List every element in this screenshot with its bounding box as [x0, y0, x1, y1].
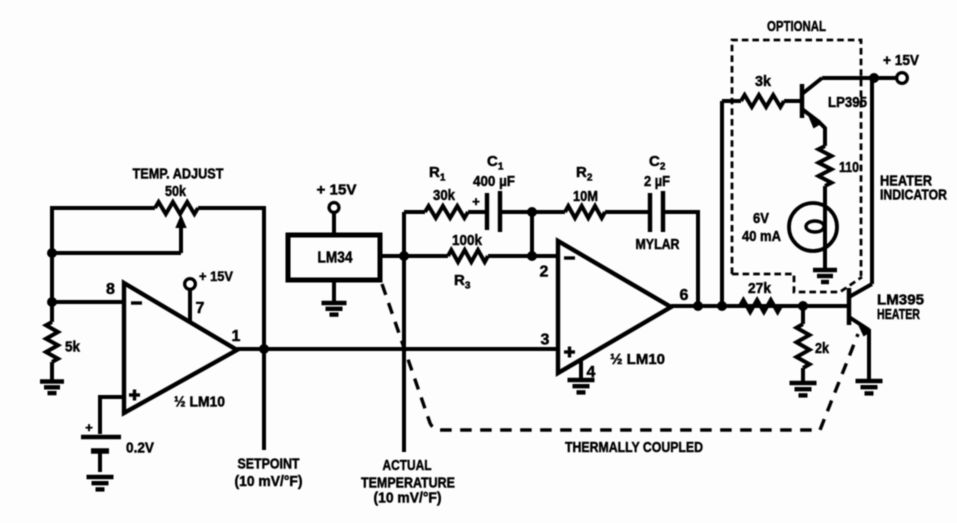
- label 6V: [753, 210, 769, 227]
- ground below 2k: [790, 383, 817, 395]
- node junction wiper/left rail: [47, 248, 57, 258]
- resistor 5k: [46, 302, 58, 380]
- wire LM34 node up to R1 row: [404, 212, 425, 258]
- lamp 6V 40mA: [789, 203, 837, 268]
- pin 1 label: [232, 328, 241, 345]
- node +15V rail junction: [869, 73, 879, 83]
- thermal coupling dashed line: [382, 284, 858, 430]
- label +15V (indicator): [883, 52, 919, 69]
- wire heater indicator rail: [870, 78, 874, 284]
- label 5k: [65, 339, 81, 356]
- resistor 2k: [797, 306, 810, 382]
- svg-text:0.2V: 0.2V: [126, 439, 154, 456]
- ground below LM34: [322, 280, 347, 315]
- label R3: [454, 272, 471, 292]
- node junction R1C1/R2 row: [527, 207, 537, 217]
- capacitor C1 400uF: [472, 191, 532, 232]
- resistor R2 10M: [565, 206, 649, 218]
- svg-text:110: 110: [839, 159, 859, 176]
- svg-text:3: 3: [541, 332, 550, 349]
- power +15V terminal (indicator): [876, 73, 907, 84]
- power +15V terminal (LM34): [329, 203, 339, 235]
- svg-text:½ LM10: ½ LM10: [610, 351, 665, 368]
- wire feedback top rail: [52, 206, 155, 210]
- svg-text:+ 15V: + 15V: [199, 268, 234, 284]
- op-amp U1 inverting input symbol: [131, 301, 142, 304]
- label C1: [487, 153, 504, 173]
- net SETPOINT probe wire: [262, 349, 266, 450]
- label 10M: [573, 188, 598, 205]
- resistor 3k: [741, 95, 802, 107]
- pin 8 label: [106, 281, 115, 298]
- svg-text:3k: 3k: [755, 73, 772, 90]
- svg-text:SETPOINT: SETPOINT: [238, 456, 300, 473]
- label +15V (U1): [199, 268, 234, 284]
- ground below lamp: [813, 270, 837, 282]
- svg-text:2k: 2k: [815, 340, 830, 357]
- svg-text:HEATER: HEATER: [877, 306, 920, 323]
- pin 7 label: [196, 300, 205, 317]
- resistor R3 100k: [448, 250, 532, 262]
- svg-text:+: +: [85, 420, 93, 435]
- svg-text:TEMP. ADJUST: TEMP. ADJUST: [133, 166, 224, 183]
- label THERMALLY COUPLED: [565, 439, 703, 456]
- label TEMP. ADJUST: [133, 166, 224, 183]
- svg-text:30k: 30k: [433, 187, 456, 204]
- node LM34 output junction: [399, 251, 409, 261]
- label 400 uF: [473, 174, 515, 190]
- label 50k (potentiometer value): [165, 183, 187, 200]
- ground below battery: [87, 477, 114, 489]
- svg-text:27k: 27k: [748, 280, 772, 297]
- svg-text:OPTIONAL: OPTIONAL: [767, 18, 826, 35]
- svg-text:ACTUAL: ACTUAL: [383, 457, 432, 474]
- wire junction to R2: [532, 210, 565, 214]
- wire U2 pin 4 to ground: [579, 360, 583, 379]
- wire C2 down to output node: [696, 210, 700, 306]
- ground U2 pin 4: [568, 380, 595, 392]
- wire wiper to left rail: [52, 251, 181, 255]
- label MYLAR: [636, 236, 680, 253]
- op-amp U2 non-inverting input symbol: [564, 347, 575, 358]
- wire base LM395: [803, 304, 849, 308]
- label LM34: [318, 250, 353, 267]
- sensor LM34 box: [288, 235, 380, 280]
- label R2: [576, 164, 593, 184]
- transistor Q1 LP395: [802, 78, 825, 146]
- svg-text:5k: 5k: [65, 339, 81, 356]
- battery B1 0.2V: [81, 420, 121, 472]
- svg-text:(10 mV/°F): (10 mV/°F): [374, 490, 442, 507]
- svg-text:+ 15V: + 15V: [317, 182, 357, 199]
- svg-text:+: +: [472, 194, 480, 209]
- label ACTUAL: [383, 457, 432, 474]
- label 1/2 LM10 (U1): [174, 394, 225, 411]
- svg-text:2 µF: 2 µF: [644, 174, 670, 190]
- label 3k: [755, 73, 772, 90]
- svg-text:40 mA: 40 mA: [742, 228, 781, 245]
- wire U2 output row: [671, 304, 847, 308]
- label HEATER (LM395): [877, 306, 920, 323]
- svg-text:LP395: LP395: [828, 94, 867, 111]
- op-amp U1 non-inverting input symbol: [129, 390, 140, 401]
- optional dashed box: [732, 40, 862, 292]
- label TEMPERATURE: [361, 475, 455, 492]
- label R1: [429, 164, 446, 184]
- wire 3k branch vertical: [722, 101, 741, 306]
- wire LM34 node to R3: [404, 254, 448, 258]
- transistor Q2 LM395: [849, 284, 872, 380]
- pin 4 label: [587, 364, 596, 381]
- svg-text:6: 6: [680, 287, 689, 304]
- op-amp U2 half LM10: [558, 241, 671, 373]
- node junction R3/pin2: [527, 251, 537, 261]
- svg-text:MYLAR: MYLAR: [636, 236, 680, 253]
- resistor 27k: [740, 300, 781, 312]
- label 2 uF: [644, 174, 670, 190]
- net ACTUAL TEMPERATURE probe wire: [402, 256, 406, 452]
- label OPTIONAL: [767, 18, 826, 35]
- label 1/2 LM10 (U2): [610, 351, 665, 368]
- pin 6 label: [680, 287, 689, 304]
- wire U1 output to U2 pin 3: [237, 347, 558, 351]
- label (10 mV/degF) setpoint: [235, 473, 303, 490]
- wire left rail vertical: [50, 206, 54, 304]
- label LP395: [828, 94, 867, 111]
- wire pot right end to output node: [198, 206, 264, 349]
- label 30k: [433, 187, 456, 204]
- label LM395: [877, 292, 924, 309]
- label +15V (LM34): [317, 182, 357, 199]
- label 40 mA: [742, 228, 781, 245]
- svg-text:1: 1: [232, 328, 241, 345]
- label 27k: [748, 280, 772, 297]
- ground below 5k: [40, 382, 64, 394]
- wire LP395 collector to +15V rail: [822, 76, 874, 80]
- wire junction down to pin2 row: [530, 212, 534, 256]
- label 110: [839, 159, 859, 176]
- node output/C2 junction: [693, 301, 703, 311]
- label (10 mV/degF) actual: [374, 490, 442, 507]
- svg-text:(10 mV/°F): (10 mV/°F): [235, 473, 303, 490]
- label 0.2V: [126, 439, 154, 456]
- svg-text:LM34: LM34: [318, 250, 353, 267]
- svg-text:100k: 100k: [452, 232, 483, 249]
- wire U1 + input to battery: [100, 395, 124, 434]
- resistor 110: [819, 146, 832, 204]
- op-amp U1 half LM10: [124, 283, 237, 413]
- wire LM34 output: [381, 254, 404, 258]
- svg-text:8: 8: [106, 281, 115, 298]
- svg-text:10M: 10M: [573, 188, 598, 205]
- svg-text:INDICATOR: INDICATOR: [880, 187, 947, 204]
- svg-text:THERMALLY COUPLED: THERMALLY COUPLED: [565, 439, 703, 456]
- svg-text:2: 2: [540, 264, 549, 281]
- svg-text:6V: 6V: [753, 210, 769, 227]
- svg-text:50k: 50k: [165, 183, 187, 200]
- wire to U2 pin 2: [532, 254, 558, 258]
- capacitor C2 2uF MYLAR: [650, 191, 698, 232]
- label HEATER (indicator): [880, 173, 932, 190]
- wire to op-amp U1 pin 8: [52, 300, 124, 304]
- node 27k/2k junction: [798, 301, 808, 311]
- svg-text:400 µF: 400 µF: [473, 174, 515, 190]
- node output/3k junction: [717, 301, 727, 311]
- label INDICATOR: [880, 187, 947, 204]
- svg-text:½ LM10: ½ LM10: [174, 394, 225, 411]
- node junction pin8/left rail: [47, 297, 57, 307]
- label SETPOINT: [238, 456, 300, 473]
- svg-text:7: 7: [196, 300, 205, 317]
- ground LM395 emitter: [856, 381, 883, 393]
- label 100k: [452, 232, 483, 249]
- pin 2 label: [540, 264, 549, 281]
- op-amp U2 inverting input symbol: [564, 256, 575, 259]
- node U1 output junction: [259, 344, 269, 354]
- label 2k: [815, 340, 830, 357]
- svg-text:+ 15V: + 15V: [883, 52, 919, 69]
- potentiometer TEMP ADJUST 50k: [155, 202, 198, 253]
- pin 3 label: [541, 332, 550, 349]
- label C2: [649, 153, 666, 173]
- power +15V terminal (U1 pin 7): [185, 279, 196, 322]
- resistor R1 30k: [425, 206, 485, 218]
